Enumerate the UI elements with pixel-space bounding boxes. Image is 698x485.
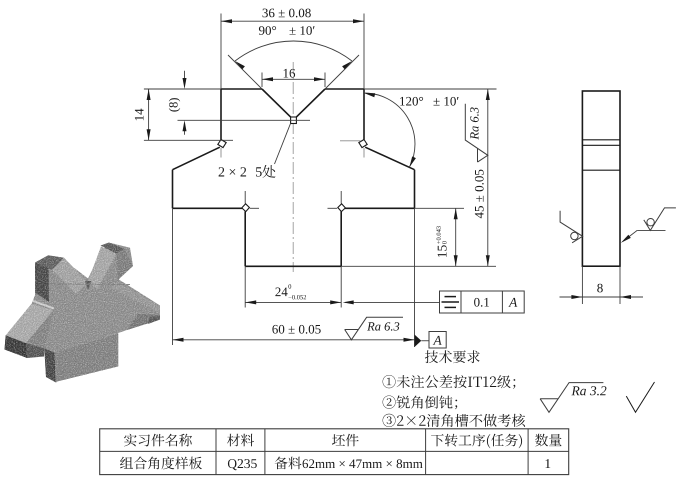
dimension 36+-0.08 extension lines bbox=[220, 14, 222, 90]
tolerance value 0.1 bbox=[474, 298, 489, 307]
heading technical requirements bbox=[425, 350, 480, 363]
symmetry symbol bbox=[442, 301, 460, 303]
right wing slant edge (120 deg face) bbox=[365, 147, 414, 170]
side view edge line 2 bbox=[582, 144, 620, 146]
datum A connector bbox=[421, 340, 429, 342]
side view edge line 3 bbox=[582, 169, 620, 171]
datum reference A in frame bbox=[508, 298, 517, 307]
2x2 relief notch at top-right corner bbox=[359, 140, 367, 148]
dimension text 8 bbox=[597, 284, 603, 293]
note 3 2x2 relief grooves not assessed bbox=[383, 414, 525, 427]
note text 2x2 5 places bbox=[219, 167, 247, 176]
datum A box bbox=[429, 332, 446, 349]
stub extension above right tenon notch bbox=[340, 191, 342, 204]
part top edge bbox=[221, 88, 262, 90]
dimension 16 extension lines bbox=[261, 73, 263, 88]
side view edge line 1 bbox=[582, 139, 620, 141]
dimension 14 extension lines bbox=[144, 88, 221, 90]
stub below top-left corner notch bbox=[220, 148, 222, 158]
title block table grid bbox=[100, 429, 569, 475]
right wing bottom edge bbox=[345, 207, 415, 209]
side view outline rectangle bbox=[582, 91, 620, 266]
dimension text 16 bbox=[284, 69, 296, 78]
dimension 15 extension line bbox=[415, 207, 465, 209]
short extension left of right tenon notch bbox=[328, 207, 338, 209]
datum letter A bbox=[433, 336, 442, 345]
V-notch left flank bbox=[262, 89, 291, 117]
surface finish Ra 3.2 (all other surfaces) bbox=[540, 383, 603, 413]
dimension text 36+-0.08 bbox=[263, 9, 311, 18]
2x2 relief notch at right tenon corner bbox=[338, 204, 346, 212]
tenon right side edge bbox=[340, 211, 342, 266]
V-notch 2x2 relief square bbox=[291, 117, 297, 124]
tenon bottom edge bbox=[245, 265, 341, 267]
short extension line left of top-right notch bbox=[340, 140, 361, 142]
tenon left side edge bbox=[244, 211, 246, 266]
basic surface symbol check mark bbox=[626, 382, 654, 412]
V-notch right flank bbox=[296, 89, 325, 117]
dimension text 14 (rotated) bbox=[135, 109, 144, 121]
2x2 relief notch at left tenon corner bbox=[242, 204, 250, 212]
dimension 36+-0.08 line with arrows bbox=[221, 20, 364, 22]
dimension 14 line with arrows bbox=[148, 89, 150, 140]
dimension 8 extension lines bbox=[581, 266, 583, 304]
datum A filled triangle bbox=[415, 335, 422, 348]
dimension (8) extension line bbox=[178, 119, 311, 121]
part top-left side edge bbox=[220, 89, 222, 140]
feature control frame leader bbox=[345, 301, 440, 303]
dimension 45 extension lines bbox=[364, 88, 497, 90]
table data row bbox=[120, 457, 202, 470]
angle dimension arc 120deg bbox=[364, 93, 415, 167]
2x2 relief notch at top-left corner bbox=[218, 140, 226, 148]
surface finish Ra 6.3 on 45 dimension line (rotated) bbox=[465, 104, 488, 162]
left wing slant edge (120 deg face) bbox=[173, 147, 220, 170]
angle dimension arc 90deg bbox=[235, 41, 352, 61]
dimension 45 line with arrows bbox=[487, 89, 489, 266]
right wing outer edge bbox=[414, 170, 416, 209]
stub below top-right corner notch bbox=[363, 148, 365, 158]
note 1 tolerances per IT12 bbox=[383, 375, 516, 389]
short extension right of left tenon notch bbox=[250, 207, 259, 209]
dimension text 60+-0.05 bbox=[272, 325, 320, 334]
dimension 60 line with arrows bbox=[173, 339, 415, 341]
angle text 90deg +-10min bbox=[259, 26, 276, 35]
centerline of part (vertical dash-dot) bbox=[292, 62, 294, 272]
leader for 2x2 relief note bbox=[275, 124, 291, 165]
dimension 16 line with arrows bbox=[262, 78, 325, 80]
table header cells bbox=[124, 434, 192, 447]
dimension 24 extension lines bbox=[244, 266, 246, 307]
dimension text 45+-0.05 (rotated) bbox=[475, 170, 484, 219]
dimension text 24 0/-0.052 bbox=[275, 288, 287, 297]
stub extension above left tenon notch bbox=[244, 191, 246, 204]
left wing bottom edge bbox=[173, 207, 243, 209]
dimension text (8) (rotated) bbox=[169, 98, 180, 112]
dimension 24 line with arrows bbox=[245, 301, 341, 303]
dimension 8 line with outside arrows bbox=[560, 296, 644, 298]
dimension 60 extension lines bbox=[172, 208, 174, 345]
part top-right side edge bbox=[363, 89, 365, 140]
dimension text 15 +0.043/0 (rotated) bbox=[436, 226, 446, 257]
surface symbol circle left (rotated) bbox=[560, 211, 583, 243]
angle 90deg V-flank extension lines bbox=[228, 55, 262, 89]
note 2 deburr sharp edges bbox=[383, 396, 458, 410]
surface finish Ra 6.3 on 60 dimension line bbox=[345, 317, 403, 340]
feature control frame box bbox=[440, 291, 525, 313]
angle text 120deg +-10min bbox=[400, 97, 423, 106]
dimension 15 line with arrows bbox=[455, 208, 457, 266]
surface symbol circle right with leader bbox=[644, 208, 676, 231]
3D part facets bbox=[5, 243, 161, 383]
dimension (8) arrow lines (outside arrows) bbox=[184, 71, 186, 82]
left wing outer edge bbox=[172, 170, 174, 209]
